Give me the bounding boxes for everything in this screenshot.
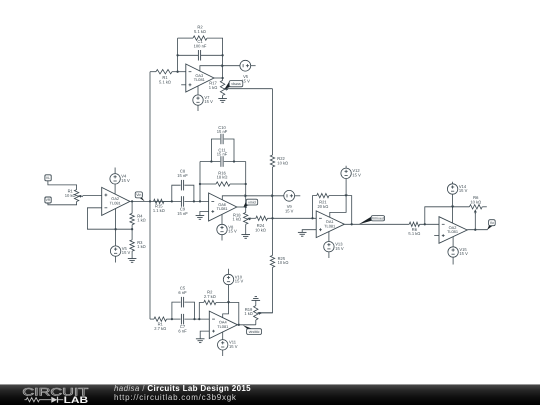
- source V13: [324, 242, 334, 252]
- wire OA2f + stub: [434, 235, 439, 237]
- wire OA3 + stub: [181, 84, 186, 86]
- wire V8 stub: [221, 235, 223, 241]
- resistor R2 5.1k: [193, 36, 207, 40]
- svg-text:15 V: 15 V: [352, 172, 361, 177]
- svg-text:1 kΩ: 1 kΩ: [209, 85, 218, 90]
- svg-text:vtreble: vtreble: [249, 330, 260, 334]
- svg-text:LAB: LAB: [64, 395, 89, 405]
- wire R25 to vtreble: [259, 267, 273, 312]
- svg-text:2.7 kΩ: 2.7 kΩ: [154, 326, 166, 331]
- ground above R19: [252, 299, 261, 301]
- svg-text:6 nF: 6 nF: [178, 290, 187, 295]
- source V7: [193, 95, 203, 105]
- junction Vin / R4 branch: [131, 200, 133, 202]
- wire OA6 + to ground: [200, 212, 209, 216]
- wire V14 to OA2f V+: [452, 194, 454, 223]
- svg-text:5.1 kΩ: 5.1 kΩ: [159, 79, 171, 84]
- junction mark V14 crossing: [451, 206, 454, 209]
- wire R15 to C8 box: [164, 200, 182, 202]
- junction mark mid V+ crossing: [245, 194, 248, 197]
- svg-text:100 nF: 100 nF: [194, 43, 207, 48]
- wire OA4 V- pin: [222, 332, 224, 340]
- junction Vin / bus: [149, 200, 151, 202]
- source V15: [448, 247, 458, 257]
- source V8: [217, 224, 227, 234]
- resistor R22 10k: [270, 155, 274, 167]
- wire bass feedback top right: [207, 38, 223, 78]
- source V6 horizontal: [240, 60, 251, 71]
- junction C10 left: [210, 160, 212, 162]
- node flag vtreble: [243, 325, 253, 329]
- wire OA2 output Vin node: [130, 200, 172, 202]
- svg-text:TL081: TL081: [217, 324, 228, 329]
- op-amp OA4: [209, 311, 237, 338]
- junction R16 right: [245, 183, 247, 185]
- node flag vmid: [243, 200, 250, 207]
- op-amp OA3: [186, 64, 214, 92]
- source V12: [341, 168, 351, 178]
- svg-text:15 V: 15 V: [228, 229, 237, 234]
- wiper of R17: [227, 88, 228, 90]
- resistor R4: [130, 213, 134, 224]
- svg-text:VR: VR: [46, 198, 51, 202]
- node flag Vo: [487, 225, 493, 230]
- svg-text:10 kΩ: 10 kΩ: [470, 200, 481, 205]
- junction C1 right: [221, 54, 223, 56]
- wire OA2f output: [467, 229, 487, 231]
- node flag Vin: [139, 197, 145, 201]
- junction summing node: [271, 217, 273, 219]
- wire R24 to OA1 -: [268, 217, 317, 219]
- wire R1 wiper to OA2 +: [83, 195, 102, 197]
- potentiometer R19: [254, 306, 258, 320]
- wire R16 branch left: [200, 183, 216, 185]
- capacitor C5 6nF: [180, 297, 182, 308]
- wiper of R6: [474, 213, 476, 215]
- wire V12 to OA1 V+: [330, 179, 346, 218]
- wire V12 stub: [345, 166, 347, 168]
- wire R19 bottom: [255, 320, 257, 325]
- wire vbass wiper run: [227, 88, 273, 90]
- svg-text:1 kΩ: 1 kΩ: [233, 217, 242, 222]
- resistor R15 1.1k: [154, 199, 165, 203]
- ground at OA1 +: [298, 231, 307, 233]
- wire C5 branch: [172, 302, 181, 319]
- capacitor C9 15nF: [180, 196, 182, 207]
- svg-text:20 kΩ: 20 kΩ: [317, 204, 328, 209]
- svg-text:vmid: vmid: [248, 200, 256, 204]
- credit text: [114, 385, 251, 403]
- capacitor C1 100nF: [197, 50, 199, 61]
- junction treble output: [238, 324, 240, 326]
- wire R19 wiper run: [261, 312, 273, 314]
- svg-text:1 kΩ: 1 kΩ: [137, 218, 146, 223]
- wire C11 branch: [200, 161, 220, 163]
- resistor R16 18k: [216, 182, 230, 186]
- node flag vbass: [225, 81, 234, 89]
- junction bass input / feedback: [176, 71, 178, 73]
- capacitor C8 15nF: [180, 180, 182, 191]
- wire OA6 output: [237, 206, 246, 208]
- ground at OA4 +: [196, 338, 205, 340]
- op-amp OA2 output: [439, 217, 467, 244]
- svg-text:TL081: TL081: [447, 229, 458, 234]
- svg-text:15 nF: 15 nF: [217, 152, 228, 157]
- svg-text:18 kΩ: 18 kΩ: [217, 175, 228, 180]
- svg-text:Vin: Vin: [136, 193, 141, 197]
- resistor R2 treble 2.7k: [204, 300, 216, 304]
- wire C10 loop right: [224, 139, 234, 162]
- terminal VL: [48, 181, 77, 190]
- wire R6 pot right stub: [482, 206, 487, 208]
- junction C8 box left: [171, 200, 173, 202]
- junction feedback / R4: [131, 228, 133, 230]
- source V10: [223, 274, 233, 284]
- resistor R13 2.7k: [154, 317, 167, 321]
- wire R18 wiper to R24: [250, 217, 256, 219]
- wire C7 to OA4 -: [184, 318, 209, 320]
- wire V11 stub: [222, 350, 224, 356]
- wire OA4 V+ pin: [223, 285, 229, 318]
- wire C9 to OA6 -: [184, 200, 208, 202]
- svg-text:TL081: TL081: [110, 201, 121, 206]
- wire V4 to OA2 V+: [114, 184, 116, 194]
- svg-text:TL081: TL081: [217, 206, 228, 211]
- wire OA2 V- pin: [115, 209, 117, 246]
- junction mark bass V+ crossing: [221, 64, 224, 67]
- wire V7 stub: [197, 105, 199, 111]
- svg-text:15 V: 15 V: [204, 99, 213, 104]
- potentiometer R1: [74, 190, 78, 202]
- wire V6 right stub: [251, 65, 256, 67]
- wire bus to R1b: [150, 71, 156, 73]
- source V14: [447, 184, 457, 194]
- svg-text:15 V: 15 V: [229, 344, 238, 349]
- op-amp OA2: [102, 187, 130, 215]
- wire V9 right stub: [295, 195, 301, 197]
- wire C1 branch left: [178, 54, 198, 56]
- svg-text:vbass: vbass: [231, 82, 241, 86]
- junction mark V12 crossing: [345, 194, 348, 197]
- svg-text:TL081: TL081: [324, 223, 335, 228]
- wire OA1 output to R6: [344, 223, 409, 225]
- wiper of R1: [81, 195, 83, 198]
- wire V4 stub: [114, 168, 116, 174]
- junction mark V10 crossing: [227, 301, 230, 304]
- wire V14 stub: [452, 182, 454, 184]
- wire Vin bus vertical: [149, 72, 151, 319]
- resistor R24 10k: [256, 216, 268, 220]
- svg-text:1 kΩ: 1 kΩ: [244, 311, 253, 316]
- wire C1 branch right: [201, 54, 223, 56]
- svg-text:15 V: 15 V: [335, 246, 344, 251]
- wire bus to R13: [150, 318, 154, 320]
- source V11: [218, 340, 228, 350]
- wire R1b to OA3 -: [172, 71, 186, 73]
- junction mid feedback left: [199, 200, 201, 202]
- wire C5 branch right: [184, 302, 194, 319]
- svg-text:6 nF: 6 nF: [178, 329, 187, 334]
- potentiometer R6 10k: [469, 205, 482, 209]
- svg-text:15 V: 15 V: [122, 250, 131, 255]
- wiper of R19: [260, 313, 261, 315]
- svg-text:10 kΩ: 10 kΩ: [278, 260, 289, 265]
- wire R6 wiper to output: [474, 213, 476, 230]
- wire OA3 V+ pin: [200, 66, 240, 72]
- wire OA2 - feedback: [87, 208, 132, 229]
- ground below R17: [218, 98, 227, 100]
- svg-text:15 V: 15 V: [459, 188, 468, 193]
- svg-text:15 V: 15 V: [121, 178, 130, 183]
- wire OA2f feedback vertical: [425, 207, 470, 225]
- svg-text:2.7 kΩ: 2.7 kΩ: [204, 294, 216, 299]
- svg-text:Vmixed: Vmixed: [372, 216, 384, 220]
- source V5: [110, 246, 120, 256]
- wire R19 top to ground: [255, 300, 257, 305]
- svg-text:10 kΩ: 10 kΩ: [65, 193, 76, 198]
- wire R17 to ground: [222, 95, 224, 98]
- junction OA1 - / feedback: [311, 217, 313, 219]
- junction C5 box right: [193, 318, 195, 320]
- wire R22 to summing: [272, 167, 274, 255]
- svg-text:Vo: Vo: [490, 221, 494, 225]
- resistor R3: [130, 240, 134, 251]
- wire OA1 + to ground: [302, 230, 316, 233]
- svg-text:15 V: 15 V: [459, 251, 468, 256]
- wire bass feedback left vertical: [177, 38, 179, 72]
- junction OA6 output: [245, 206, 247, 208]
- wire V5 stub: [115, 256, 117, 262]
- wire OA1 feedback right: [329, 196, 352, 225]
- wiper of R18: [249, 218, 252, 220]
- ground at OA6 +: [196, 215, 205, 217]
- wire C11 branch right: [224, 161, 246, 163]
- svg-text:1 kΩ: 1 kΩ: [137, 244, 146, 249]
- svg-text:TL081: TL081: [194, 77, 205, 82]
- wire treble feedback right: [216, 303, 239, 325]
- svg-text:1.1 kΩ: 1.1 kΩ: [153, 208, 165, 213]
- wire OA3 V- pin: [197, 86, 199, 95]
- wire R13 to C5 box: [167, 318, 181, 320]
- wire R3 to ground: [131, 251, 133, 258]
- capacitor C7 6nF: [180, 314, 182, 325]
- capacitor C10 15nF: [220, 134, 222, 144]
- wire R16 branch right: [230, 183, 246, 185]
- resistor R1 bass 5.1k: [156, 70, 172, 74]
- source V4: [110, 174, 120, 184]
- resistor R25 10k: [270, 255, 274, 267]
- svg-text:10 kΩ: 10 kΩ: [277, 161, 288, 166]
- wire OA1 feedback left vertical: [313, 196, 317, 219]
- wire OA6 V- pin: [221, 214, 223, 224]
- wire mid feedback left vertical: [199, 162, 201, 202]
- svg-text:5.1 kΩ: 5.1 kΩ: [194, 29, 206, 34]
- svg-text:15 nF: 15 nF: [177, 211, 188, 216]
- wire bass feedback top left: [178, 37, 193, 39]
- terminal VR: [48, 202, 77, 205]
- svg-text:10 kΩ: 10 kΩ: [255, 228, 266, 233]
- junction OA2 V- / feedback: [114, 228, 116, 230]
- junction C8 box right: [193, 200, 195, 202]
- wire OA1 V- pin: [328, 231, 330, 241]
- op-amp OA6: [209, 193, 237, 221]
- wire mid feedback right vertical: [245, 162, 247, 213]
- wire OA4 + to ground: [200, 331, 209, 339]
- potentiometer R18: [244, 213, 248, 225]
- ground below R18: [241, 234, 250, 236]
- wire C10 loop: [211, 139, 220, 162]
- wire R18 to ground: [245, 224, 247, 234]
- wire OA4 output: [238, 324, 256, 326]
- wire OA3 output: [214, 77, 223, 79]
- junction mark sum bus crossing: [271, 194, 274, 197]
- wire OA6 V+ pin: [222, 196, 283, 200]
- wire R4 top: [131, 201, 133, 213]
- node flag Vmixed: [359, 217, 372, 225]
- svg-text:15 nF: 15 nF: [177, 173, 188, 178]
- wire V13 stub: [328, 252, 330, 258]
- junction output / wiper: [474, 229, 476, 231]
- junction OA2f - / feedback: [424, 223, 426, 225]
- junction treble feedback left: [198, 318, 200, 320]
- wire C8 branch right: [184, 185, 194, 201]
- junction R16 left: [199, 183, 201, 185]
- wire treble feedback left vertical: [199, 303, 203, 320]
- junction C10 right: [233, 160, 235, 162]
- resistor R21 20k: [317, 193, 329, 197]
- op-amp OA1: [316, 211, 344, 238]
- resistor R6 5.1k: [409, 222, 419, 226]
- wire OA2f V- pin: [452, 237, 454, 247]
- junction OA3 output / R17: [221, 77, 223, 79]
- svg-text:VL: VL: [46, 176, 50, 180]
- svg-text:15 V: 15 V: [285, 208, 294, 213]
- wire output to R17: [222, 78, 224, 80]
- potentiometer R17: [220, 80, 224, 95]
- wire R4 to R3: [131, 225, 133, 240]
- wire vbass vertical: [272, 89, 274, 155]
- junction C5 box left: [171, 318, 173, 320]
- svg-text:5.1 kΩ: 5.1 kΩ: [408, 231, 420, 236]
- wire V15 stub: [452, 257, 454, 264]
- junction C1 left: [176, 54, 178, 56]
- wire R6 to OA2f -: [420, 223, 439, 225]
- CircuitLab logo: [0, 384, 110, 405]
- svg-text:15 nF: 15 nF: [217, 129, 228, 134]
- capacitor C11 15nF: [220, 156, 222, 167]
- wire C8 branch: [172, 185, 181, 201]
- junction OA1 output: [351, 223, 353, 225]
- ground below R3: [128, 258, 137, 260]
- svg-text:15 V: 15 V: [235, 279, 244, 284]
- wire V10 stub: [228, 269, 230, 275]
- source V9 horizontal: [284, 190, 295, 201]
